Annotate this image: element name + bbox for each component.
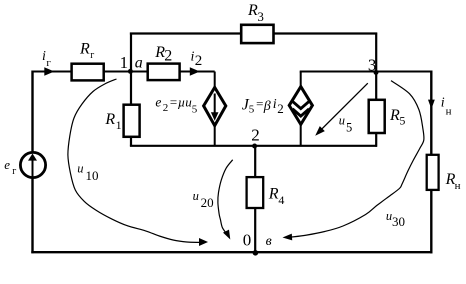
svg-text:5: 5 [192, 104, 198, 116]
svg-text:2: 2 [164, 48, 172, 65]
label R_4 [268, 185, 285, 207]
svg-text:R: R [104, 111, 115, 128]
svg-text:3: 3 [368, 55, 377, 74]
svg-text:i: i [441, 96, 445, 111]
voltage arrow u_5 diagonal [315, 83, 368, 136]
wire generator row horizontal [33, 71, 132, 73]
svg-text:2: 2 [277, 101, 284, 116]
svg-text:10: 10 [86, 168, 99, 183]
wire left vertical [31, 71, 33, 254]
svg-text:1: 1 [116, 118, 122, 132]
svg-text:в: в [266, 234, 272, 249]
wire middle horizontal node2 row [130, 145, 377, 147]
svg-text:г: г [12, 166, 16, 177]
svg-text:u: u [77, 162, 83, 176]
svg-text:н: н [455, 180, 461, 192]
dependent voltage source e2: diamond with down arrow [204, 87, 226, 125]
label i_2 [191, 50, 203, 69]
label u_20 [193, 189, 214, 210]
svg-text:5: 5 [249, 104, 255, 116]
node 1 junction dot [128, 69, 133, 74]
svg-text:=µu: =µu [169, 94, 192, 109]
svg-text:20: 20 [201, 195, 214, 210]
resistor Rg box [72, 64, 104, 81]
svg-text:2: 2 [251, 125, 260, 144]
svg-text:5: 5 [399, 114, 405, 128]
label R_n [445, 171, 461, 192]
wire right vertical [430, 71, 432, 254]
current arrow i_g [44, 67, 54, 75]
svg-text:0: 0 [243, 231, 252, 250]
wire node1 vertical [130, 33, 132, 146]
node 0 junction dot [253, 250, 259, 256]
label J_5 = beta i_2 [242, 96, 284, 116]
label R_1 [104, 111, 121, 132]
label u_5 [339, 114, 353, 135]
label i_n [441, 96, 452, 118]
resistor R1 box [124, 105, 140, 137]
wire node1 to e2 branch [131, 71, 215, 73]
wire R4 branch vertical [254, 145, 256, 253]
svg-text:R: R [389, 107, 400, 124]
svg-text:2: 2 [163, 102, 169, 114]
wire node3 vertical R5 branch [375, 33, 377, 147]
label e_2 = mu u_5 [155, 94, 197, 115]
svg-text:u: u [193, 189, 199, 203]
label e_g [4, 157, 16, 177]
svg-text:2: 2 [195, 53, 203, 69]
svg-text:e: e [4, 157, 10, 172]
svg-text:R: R [79, 41, 90, 58]
svg-text:β: β [263, 99, 271, 114]
current arrow i_2 [190, 67, 200, 75]
svg-text:R: R [247, 2, 258, 19]
svg-text:г: г [90, 50, 94, 61]
label R_g [79, 41, 94, 62]
svg-text:г: г [46, 57, 51, 69]
svg-text:н: н [446, 105, 452, 117]
label R_2 [154, 44, 172, 65]
node 2 junction dot [252, 144, 257, 149]
voltage curve u_10 with arrow [68, 79, 208, 246]
svg-text:R: R [268, 185, 279, 202]
voltage curve u_30 with arrow [283, 81, 424, 241]
svg-text:4: 4 [278, 193, 284, 207]
current arrow i_n [428, 100, 435, 110]
svg-text:i: i [273, 97, 277, 112]
label u_30 [386, 209, 405, 229]
svg-text:e: e [155, 94, 161, 109]
wire J5 branch vertical [300, 72, 302, 147]
dependent current source J5: diamond with double chevron [289, 87, 312, 125]
voltage curve u_20 with arrow [218, 160, 233, 240]
label u_10 [77, 162, 98, 183]
label R_3 [247, 2, 264, 24]
svg-text:3: 3 [257, 9, 264, 24]
EMF source e_g: circle with up arrow [20, 152, 45, 183]
wire J5 top to node3 to right edge [300, 71, 433, 73]
node 3 junction dot [374, 70, 379, 75]
resistor R2 box [148, 64, 180, 81]
wire bottom horizontal [31, 251, 432, 253]
svg-text:30: 30 [392, 214, 405, 229]
wire top horizontal R3 run [130, 32, 377, 34]
svg-text:a: a [135, 55, 143, 72]
wire e2 branch vertical [214, 72, 216, 147]
resistor Rn box [427, 155, 439, 190]
svg-text:1: 1 [120, 53, 129, 72]
resistor R3 box [241, 25, 273, 43]
svg-text:u: u [339, 114, 345, 128]
svg-text:i: i [42, 49, 46, 64]
svg-text:5: 5 [346, 121, 352, 135]
resistor R5 box [369, 100, 385, 133]
resistor R4 box [247, 177, 264, 208]
svg-text:=: = [255, 96, 264, 111]
label i_g [42, 49, 51, 69]
label R_5 [389, 107, 405, 128]
